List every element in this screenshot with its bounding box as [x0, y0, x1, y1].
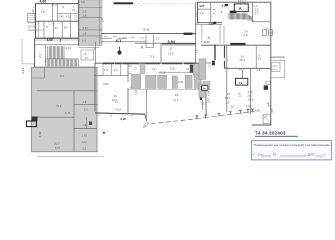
svg-text:15: 15 [175, 93, 179, 97]
gray block inner wall [37, 90, 97, 92]
stair hatch wing [229, 13, 252, 20]
dark step outline left [27, 121, 37, 127]
svg-text:2,97: 2,97 [207, 97, 211, 103]
svg-text:4,00: 4,00 [103, 82, 109, 86]
blue underline [255, 135, 298, 137]
svg-text:2,43: 2,43 [246, 105, 251, 108]
room divider [43, 21, 45, 38]
wing right room wall [252, 2, 254, 22]
svg-text:74 34 302403: 74 34 302403 [255, 130, 286, 136]
band wall segment [162, 43, 196, 45]
svg-text:1,75: 1,75 [82, 134, 88, 138]
big room bottom wall [101, 32, 196, 34]
blue stamp box [251, 141, 331, 160]
svg-text:2,9: 2,9 [83, 123, 87, 127]
svg-text:76,3: 76,3 [56, 104, 62, 108]
dark blob on wall [32, 117, 38, 121]
svg-text:2: 2 [60, 38, 62, 42]
dark blob right [264, 85, 268, 89]
svg-text:4,94: 4,94 [207, 90, 211, 96]
svg-text:5,2: 5,2 [83, 147, 87, 151]
stair flight 2 hatch [46, 60, 78, 67]
gray block inner wall [86, 117, 88, 128]
svg-text:2,02: 2,02 [248, 94, 254, 98]
svg-text:47,5: 47,5 [173, 99, 179, 103]
room13 top wall [95, 62, 206, 64]
left small protrusion [29, 26, 35, 31]
gray strip inner wall [79, 35, 103, 37]
shaft divider wall [160, 44, 162, 64]
vertical wall [226, 46, 228, 113]
svg-text:11: 11 [170, 47, 173, 51]
lower middle room divider [145, 89, 147, 121]
dark corner bar [184, 33, 193, 35]
svg-text:1,10: 1,10 [75, 15, 78, 20]
svg-text:6,1: 6,1 [116, 38, 122, 43]
left balcony outline [28, 13, 35, 23]
right outer wall [270, 3, 272, 126]
top wall upper-left block [35, 3, 79, 5]
door arc [225, 58, 229, 62]
inner left wall [38, 21, 40, 38]
window pier [194, 74, 201, 88]
band wall segment [162, 45, 196, 47]
svg-text:3,00: 3,00 [170, 68, 175, 71]
window pier [146, 75, 157, 88]
svg-text:2,18: 2,18 [161, 71, 166, 74]
gray corridor strip upper-left [79, 0, 103, 46]
row1 sub wall [58, 13, 79, 15]
svg-text:2,0: 2,0 [114, 68, 118, 72]
svg-text:13,6: 13,6 [168, 52, 174, 56]
pier band sub wall [128, 72, 206, 73]
dark bar [200, 89, 202, 101]
left outer wall [35, 4, 37, 39]
blue stamp underscores [262, 155, 323, 157]
wall below strip [79, 46, 100, 48]
stair tail [247, 19, 255, 22]
room13 bottom wall [95, 113, 145, 114]
room divider [51, 4, 53, 22]
corner steps [267, 103, 272, 113]
wing top wall [197, 1, 272, 3]
room13 right wall upper [127, 63, 129, 82]
band wall segment [101, 41, 146, 43]
terrace post [204, 115, 207, 118]
wall to terrace [205, 90, 207, 117]
cross mark [141, 46, 143, 49]
window sill line [128, 88, 205, 90]
window pier [132, 75, 141, 89]
lamp icon [119, 47, 121, 51]
svg-text:2,3: 2,3 [38, 54, 42, 58]
door ticks room6 [213, 10, 215, 14]
svg-text:2,5: 2,5 [83, 9, 87, 13]
wing room divider [210, 2, 212, 22]
room B outline [81, 50, 94, 60]
chimney ticks [239, 0, 246, 4]
svg-text:26,2: 26,2 [240, 58, 246, 62]
svg-text:3,24: 3,24 [21, 68, 25, 74]
stairwell box [234, 4, 248, 12]
wing left wall [197, 2, 199, 23]
door tick lines [100, 38, 127, 40]
faint top line [133, 3, 196, 5]
room divider [61, 21, 63, 38]
svg-text:Б: Б [85, 52, 87, 56]
small box [263, 30, 267, 36]
fire escape outer [271, 60, 285, 77]
band room divider [146, 35, 154, 47]
right wall of room16 [201, 100, 203, 110]
svg-text:М: М [273, 153, 276, 157]
svg-text:1,6: 1,6 [83, 13, 87, 17]
svg-text:1,32: 1,32 [38, 131, 42, 137]
small box [269, 30, 273, 36]
horizontal wall [225, 67, 271, 69]
window pier [185, 75, 192, 88]
wall with door [224, 46, 226, 69]
small tick left [94, 48, 96, 51]
svg-text:1,9: 1,9 [82, 39, 86, 43]
gray block inner wall vertical [73, 91, 75, 152]
svg-text:3,34: 3,34 [83, 26, 89, 30]
svg-text:5,76: 5,76 [65, 111, 71, 115]
fire escape inner [271, 63, 280, 72]
gray strip inner wall [79, 29, 103, 31]
stair mid landing line [46, 58, 79, 60]
terrace post [239, 111, 242, 114]
bottom right wall [252, 124, 272, 126]
svg-text:1,6: 1,6 [83, 31, 87, 35]
pier band gray block [193, 64, 199, 75]
room13 left wall [94, 63, 96, 111]
dark blob base [212, 61, 215, 66]
svg-text:Ж: Ж [102, 131, 106, 135]
fire escape lines [271, 57, 285, 69]
gray block lower-left [32, 67, 98, 152]
door arc row2b [53, 21, 57, 25]
window pier [158, 75, 167, 88]
room A divider [45, 45, 47, 63]
left balcony hatch [29, 16, 35, 22]
room13 band divider [102, 63, 104, 75]
boundary drop [145, 114, 147, 121]
terrace post [251, 109, 254, 112]
wall right rooms [252, 21, 271, 23]
stair top wall [35, 44, 79, 46]
Gz box [236, 78, 248, 85]
room13 band divider [119, 63, 121, 75]
room13 upper band wall [95, 74, 128, 76]
wing room wall [198, 8, 211, 10]
svg-text:7,1: 7,1 [206, 40, 210, 44]
corner panel [263, 115, 271, 123]
narrow room wall [255, 46, 257, 69]
svg-text:12,8: 12,8 [150, 56, 155, 59]
svg-text:6,20: 6,20 [121, 117, 127, 121]
big room top dark bar [114, 2, 134, 4]
gray strip right wall double [99, 0, 101, 46]
terrace post [217, 113, 220, 116]
svg-text:14: 14 [64, 25, 68, 29]
row1 sub divider [69, 14, 71, 22]
svg-text:6,40: 6,40 [178, 80, 184, 84]
room13 band divider [111, 63, 113, 75]
room13 right wall lower [127, 88, 129, 114]
svg-text:4,85: 4,85 [255, 110, 260, 113]
svg-text:9,1: 9,1 [201, 102, 205, 106]
pier band gray block [140, 64, 145, 74]
svg-text:2,9: 2,9 [83, 100, 87, 104]
band room divider [145, 35, 147, 47]
svg-text:2,7: 2,7 [85, 56, 89, 60]
wall ticks [99, 115, 132, 117]
Kv box [202, 86, 208, 91]
svg-text:1,40: 1,40 [59, 16, 64, 19]
gray strip left wall [78, 0, 80, 46]
door arc row2 [46, 21, 50, 25]
svg-text:БП: БП [200, 4, 204, 8]
pier band dark block [190, 65, 194, 73]
second line bottom wall [35, 39, 79, 41]
svg-text:4,52: 4,52 [66, 16, 71, 19]
svg-text:4,27: 4,27 [239, 67, 245, 71]
svg-text:6,7: 6,7 [255, 12, 259, 16]
svg-text:10,9: 10,9 [248, 98, 254, 102]
svg-text:7,01: 7,01 [81, 0, 87, 4]
svg-text:8,45: 8,45 [144, 27, 150, 31]
corridor divider [219, 24, 221, 43]
svg-text:3,54: 3,54 [168, 40, 176, 44]
svg-text:4,00: 4,00 [40, 0, 47, 4]
svg-text:1,56: 1,56 [248, 90, 254, 94]
terrace post [247, 110, 250, 113]
long wall y43 [135, 42, 196, 44]
svg-text:1,9: 1,9 [244, 33, 248, 37]
svg-text:9,3: 9,3 [60, 74, 64, 78]
svg-text:1,6: 1,6 [200, 11, 204, 15]
svg-text:2,02: 2,02 [82, 140, 88, 144]
dark L wall [230, 11, 237, 14]
gray strip inner wall [79, 16, 103, 18]
svg-text:4,60: 4,60 [47, 38, 53, 42]
wall tick right [268, 32, 274, 34]
stair bottom wall [35, 66, 94, 68]
svg-text:5,79: 5,79 [55, 147, 60, 150]
room divider [57, 4, 59, 22]
corridor pier [199, 84, 206, 97]
gray block inner wall [74, 103, 97, 105]
dark wall segment [230, 43, 245, 45]
stair flight 1 hatch [48, 46, 64, 59]
door tick row [104, 36, 144, 38]
terrace post [195, 116, 198, 119]
terrace post [229, 112, 232, 115]
bottom outer line [38, 155, 104, 157]
small protrusion [266, 81, 270, 84]
wing bottom wall [197, 22, 222, 24]
corridor pier [199, 59, 206, 80]
corridor wall thin upper [223, 26, 225, 44]
corner panel mark [263, 115, 271, 123]
svg-text:1,50: 1,50 [209, 22, 215, 26]
gray block lobby wall [32, 67, 45, 78]
room2 underline [207, 38, 211, 40]
gray block inner wall [74, 128, 97, 130]
left small room wall [35, 29, 44, 31]
gray blob right [203, 81, 210, 90]
thick vertical wall [214, 45, 216, 60]
terrace dashed line [151, 119, 195, 124]
svg-text:20,7: 20,7 [54, 141, 60, 145]
room divider [70, 21, 72, 38]
corridor divider [201, 24, 203, 43]
svg-text:1,70: 1,70 [135, 90, 138, 95]
svg-text:Помещение на этаже-этаж(ей) со: Помещение на этаже-этаж(ей) составляющая [254, 143, 330, 147]
mid horizontal wall [35, 20, 79, 22]
svg-text:14,9: 14,9 [66, 46, 72, 50]
svg-text:50,1: 50,1 [225, 96, 231, 100]
pier segments on wall [103, 62, 196, 64]
wall tick [33, 6, 36, 8]
svg-text:7,5: 7,5 [41, 10, 46, 14]
stair block left wall [34, 38, 36, 68]
gray block inner wall [32, 116, 75, 118]
svg-text:4,52: 4,52 [116, 108, 122, 112]
big room right wall [195, 2, 197, 63]
curl mark [144, 123, 150, 128]
svg-text:2,97: 2,97 [238, 91, 242, 97]
bottom wall of upper-left block [35, 37, 79, 39]
svg-text:4,28: 4,28 [32, 9, 35, 14]
svg-text:ДУП,: ДУП, [308, 153, 315, 157]
window pier [172, 76, 177, 89]
svg-text:1,3: 1,3 [104, 68, 108, 72]
dark corner blob [225, 4, 228, 6]
svg-text:1,4: 1,4 [84, 109, 88, 112]
icon room left wall [94, 42, 96, 63]
terrace line right [195, 111, 255, 119]
room divider [52, 21, 54, 38]
svg-text:2,0: 2,0 [226, 101, 230, 105]
corridor wall [195, 23, 222, 25]
svg-text:Гз: Гз [239, 81, 243, 85]
gray strip inner wall [79, 7, 103, 9]
porch outline left of stairs [22, 39, 35, 64]
Gz stem [241, 70, 243, 78]
corridor wall second line [197, 2, 199, 23]
svg-text:9,1: 9,1 [258, 57, 262, 61]
vertical wall right [250, 69, 252, 114]
dark speck [89, 122, 92, 125]
dark block [213, 22, 216, 25]
right section top wall [201, 44, 271, 46]
door ticks top wall [53, 4, 56, 7]
